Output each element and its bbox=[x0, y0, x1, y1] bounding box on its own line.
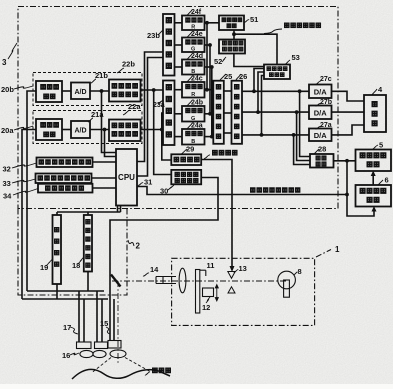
A/D converter 21a bbox=[71, 121, 90, 138]
junction memory bus 3 bottom bbox=[210, 135, 214, 139]
wire R line riser to 53 bbox=[254, 69, 264, 92]
wire color-balance-a output to mux 23a bbox=[141, 129, 164, 131]
field of view dashed cone bbox=[92, 358, 111, 373]
memory 24b (G) bbox=[182, 106, 205, 122]
encoder circuit 28 bbox=[310, 154, 334, 168]
relay lens in barrel bbox=[179, 268, 186, 293]
D/A converter 27c bbox=[309, 85, 332, 99]
junction memory bus 2 bottom bbox=[208, 112, 212, 116]
junction A/D-b output bbox=[100, 89, 104, 93]
wire CPU to mux 23b control 1 bbox=[137, 52, 163, 162]
wire record line to device 6 bbox=[347, 195, 374, 217]
A/D converter 21b bbox=[71, 83, 90, 100]
wire CPU to mux 23b control 2 bbox=[137, 58, 163, 177]
wire 52 to 53 bbox=[234, 54, 264, 67]
wire encoder junction down to record line bbox=[346, 161, 348, 195]
dashed group box 22a bbox=[33, 111, 142, 144]
color balance correction circuit (upper) bbox=[109, 80, 141, 102]
dimmer circuit 29 bbox=[171, 154, 201, 165]
memory bus 1 vertical bbox=[206, 23, 208, 90]
enclosure box 2 (camera head, dash-dot border) bbox=[18, 209, 127, 296]
junction abnormality signal bbox=[232, 32, 236, 36]
memory 24d (B) bbox=[182, 60, 205, 75]
junction record line bbox=[345, 193, 349, 197]
filter plate 11 bbox=[196, 270, 200, 314]
filter drive 12 bbox=[203, 288, 214, 297]
image record instructing signal line bbox=[137, 187, 347, 195]
wire arrow device 6 to device 5 bbox=[372, 174, 374, 186]
optical axis (dash-dot) bbox=[112, 280, 287, 282]
wire G line drop to encoder 28 bbox=[297, 112, 310, 160]
subject wavy line bbox=[72, 369, 170, 379]
wire D/A 27a to monitor bbox=[332, 125, 365, 135]
wire B line drop to encoder 28 bbox=[294, 135, 310, 165]
preprocessing circuit (lower) bbox=[36, 119, 62, 140]
wire switch 33 to CPU bbox=[92, 177, 117, 179]
wire B line riser to 53 bbox=[262, 76, 265, 135]
memory 24f (R) bbox=[182, 16, 205, 31]
label subject (被摄体) bbox=[153, 368, 158, 373]
CPU 31 bbox=[116, 149, 137, 206]
wire junction-b down to CPU bbox=[102, 91, 117, 153]
junction encoder output bbox=[345, 159, 349, 163]
image processing circuit 25 bbox=[213, 81, 224, 144]
wire color-balance-b output to mux 23a bbox=[141, 89, 164, 91]
wire junction-a down to CPU bbox=[105, 130, 117, 157]
bending mirror bbox=[111, 275, 121, 287]
wire A/D-b to color-balance-b bbox=[90, 90, 109, 92]
wire D/A 27b to monitor bbox=[332, 111, 365, 113]
wire memory 24d output stub bbox=[205, 66, 212, 68]
wire memory 24a to image processing circuit 25 bbox=[205, 136, 214, 138]
multiplexer 23b bbox=[163, 14, 175, 76]
monitor 4 bbox=[364, 95, 386, 132]
junction on a-line bbox=[160, 128, 164, 132]
wire CPU bottom to head switches bbox=[117, 206, 119, 213]
junction G line to 53 bbox=[256, 110, 260, 114]
junction memory bus 1 bottom bbox=[205, 88, 209, 92]
drive motion arrow bbox=[216, 286, 218, 301]
wire switch 19 to lamp arm bbox=[56, 284, 58, 299]
wire mux23a to memory 24c bbox=[175, 89, 183, 91]
photograph taking device 6 bbox=[356, 185, 392, 207]
multiplexer 23a bbox=[163, 81, 175, 146]
wire G line riser to 53 bbox=[258, 72, 264, 112]
net label: abnormality judging signal bbox=[285, 23, 289, 27]
shutter stem 15 bbox=[113, 299, 115, 341]
preprocessing circuit (upper) bbox=[36, 81, 62, 102]
wire preproc-a to A/D-a bbox=[62, 129, 71, 131]
lamp base 2 block bbox=[95, 342, 108, 349]
image processing setting switch 33 bbox=[36, 174, 92, 184]
tone setting switch 34 bbox=[38, 184, 93, 193]
wire mux23b to memory 24f bbox=[175, 22, 183, 24]
objective lens under shutter bbox=[110, 350, 126, 358]
wire D/A 27c to monitor bbox=[332, 91, 365, 101]
junction B line to 53 bbox=[260, 133, 264, 137]
wire encoder 28 to digital scanner 5 bbox=[334, 160, 356, 162]
wire mux23a to memory 24a bbox=[175, 136, 183, 138]
wire switch 34 to CPU bbox=[93, 187, 117, 189]
wire 51 to 52 bbox=[233, 30, 235, 40]
wire a-line riser to mux 23a second port bbox=[162, 113, 163, 130]
lamp base 17 block bbox=[77, 342, 92, 349]
color balance setting switch 32 bbox=[37, 158, 93, 168]
shutter 15 block bbox=[108, 341, 121, 349]
junction memory bus 2 top bbox=[208, 43, 212, 47]
lens discriminating element 18 bbox=[84, 215, 92, 272]
wire preproc-b input from head bbox=[27, 91, 36, 291]
wire mux23b to memory 24d bbox=[175, 66, 183, 68]
diaphragm prism 13 (upper) bbox=[228, 272, 235, 279]
wire preproc-a input from head bbox=[22, 130, 36, 300]
lamp bulb 16 right bbox=[93, 350, 106, 357]
junction R line to encoder bbox=[298, 89, 302, 93]
junction memory bus 3 top bbox=[210, 65, 214, 69]
exposure time control circuit 30 bbox=[171, 170, 201, 184]
wire switch 32 to CPU bbox=[93, 161, 117, 163]
image sensor 8 bbox=[278, 271, 296, 289]
abnormality judging circuit 51 bbox=[219, 16, 244, 31]
wire memory 24f output to judging circuit 51 bbox=[205, 22, 220, 24]
lamp stem 17 bbox=[78, 291, 80, 342]
wire A/D-a to color-balance-a bbox=[90, 129, 109, 131]
lamp bulb 16 left bbox=[80, 350, 93, 357]
memory bus 3 vertical bbox=[211, 67, 213, 137]
wire 26 to D/A 27c (R line) bbox=[242, 90, 309, 92]
wire R line drop to encoder 28 bbox=[300, 91, 310, 156]
junction R line to 53 bbox=[252, 89, 256, 93]
wire element 18 to lamp arm bbox=[87, 272, 89, 292]
lens barrel 14 bbox=[156, 276, 176, 278]
enclosure box 1 (optical unit, dash-dot border) bbox=[172, 258, 315, 325]
wire 25 to 26 (R) bbox=[224, 90, 232, 92]
wire 26 to D/A 27a (B line) bbox=[242, 134, 309, 136]
lamp stem 2 bbox=[96, 291, 98, 342]
memory 24c (R) bbox=[182, 82, 205, 98]
lamp arm lower rail bbox=[22, 298, 108, 300]
wire b-line down to exposure time control bbox=[154, 90, 172, 175]
tone adjusting circuit 26 bbox=[232, 81, 243, 144]
D/A converter 27a bbox=[309, 129, 332, 142]
memory 24e (G) bbox=[182, 38, 205, 53]
color balance correction circuit (lower) bbox=[109, 120, 141, 142]
release switch 19 bbox=[53, 215, 62, 284]
abnormality position display circuit 52 bbox=[219, 40, 245, 54]
net label: dimmer signal bbox=[213, 150, 218, 155]
D/A converter 27b bbox=[309, 106, 332, 120]
wire mux23a to memory 24b bbox=[175, 113, 183, 115]
wire 25 to 26 (B) bbox=[224, 132, 232, 134]
dashed group box 22b bbox=[33, 73, 142, 106]
junction on b-line bbox=[152, 88, 156, 92]
digital scanner device 5 bbox=[356, 150, 392, 172]
wire 25 to 26 (G) bbox=[224, 112, 232, 114]
memory 24a (B) bbox=[182, 129, 205, 145]
diaphragm prism (lower) bbox=[228, 287, 235, 293]
wire mux23b to memory 24e bbox=[175, 44, 183, 46]
junction memory bus 1 top bbox=[205, 21, 209, 25]
wire dimmer 29 to diaphragm (dimmer signal) bbox=[201, 160, 232, 269]
junction G line to encoder bbox=[295, 110, 299, 114]
wire preproc-b to A/D-b bbox=[62, 90, 71, 92]
memory bus 2 vertical bbox=[209, 45, 211, 114]
wire memory 24e output stub bbox=[205, 44, 211, 46]
temporary storage memory 53 bbox=[264, 65, 290, 80]
wire memory 24b to image processing circuit 25 bbox=[205, 113, 214, 115]
wire memory 24c to image processing circuit 25 bbox=[205, 89, 214, 91]
enclosure box 3 (processor unit, dash-dot border) bbox=[18, 7, 338, 209]
net label: image record instructing signal bbox=[251, 188, 255, 192]
lamp arm upper rail bbox=[27, 290, 104, 292]
wire exposure control 30 to shutter 15 bbox=[110, 178, 218, 342]
wire 26 to D/A 27b (G line) bbox=[242, 111, 309, 113]
wire 51 output to temporary memory 53 (abnormality judging signal) bbox=[234, 34, 277, 64]
junction B line to encoder bbox=[292, 133, 296, 137]
junction A/D-a output bbox=[103, 128, 107, 132]
wire a-line down to dimmer circuit bbox=[162, 130, 172, 161]
